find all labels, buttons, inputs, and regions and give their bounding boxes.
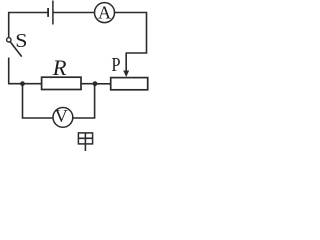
svg-text:R: R <box>52 55 67 80</box>
wire: voltmeter right up to node B <box>73 84 94 118</box>
wire: node A down and right to voltmeter <box>23 84 53 118</box>
battery: long plate (positive) <box>52 1 54 25</box>
wire: node B to resistor right terminal <box>81 83 95 85</box>
wire: ammeter right, down right side, to wiper corner <box>115 13 147 54</box>
wire: left rail lower vertical <box>8 58 10 84</box>
wire: battery to ammeter <box>53 12 94 14</box>
switch S <box>7 38 22 57</box>
node A junction dot <box>20 81 25 86</box>
svg-text:P: P <box>111 55 120 76</box>
wire: rheostat left terminal to node B <box>95 83 111 85</box>
potentiometer wiper arrow P <box>123 53 129 78</box>
voltmeter V <box>53 106 73 128</box>
resistor R <box>42 77 81 89</box>
svg-text:A: A <box>98 2 111 22</box>
ammeter A <box>95 2 115 22</box>
label 甲 (figure caption, drawn strokes) <box>78 133 92 151</box>
rheostat (slide resistor) <box>111 78 148 90</box>
node B junction dot <box>93 81 98 86</box>
svg-text:V: V <box>55 106 68 126</box>
wire: top-left vertical up and top horizontal to battery <box>9 13 48 38</box>
battery: short plate (negative) <box>47 8 49 17</box>
svg-text:S: S <box>15 31 27 52</box>
wire: resistor left terminal to left rail <box>8 83 42 85</box>
